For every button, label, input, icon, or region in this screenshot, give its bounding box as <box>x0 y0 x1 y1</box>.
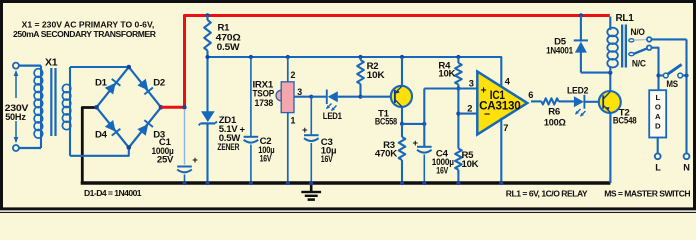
resistor R1 <box>204 16 211 58</box>
svg-text:16V: 16V <box>260 153 272 164</box>
svg-text:100Ω: 100Ω <box>544 117 566 128</box>
label pin 2 opamp <box>467 104 472 114</box>
diode D5 <box>574 16 588 73</box>
junction node base T1 <box>358 95 362 99</box>
svg-text:N/O: N/O <box>631 27 646 38</box>
wire C1 to rail <box>184 175 186 184</box>
diode D1 <box>105 79 121 95</box>
transistor T1 <box>391 86 412 107</box>
label LED2 <box>567 86 588 97</box>
junction node pin3/C3 <box>309 95 313 99</box>
relay pole bottom <box>647 45 652 50</box>
junction rail x250.9 <box>249 181 253 185</box>
svg-text:L: L <box>655 162 661 172</box>
ground symbol <box>301 185 321 201</box>
svg-text:+: + <box>192 155 198 166</box>
svg-text:RL1: RL1 <box>616 13 635 24</box>
label pin 2 <box>291 70 296 80</box>
IR receiver module IRX1 <box>276 82 294 113</box>
label D2 <box>153 78 165 89</box>
junction rail x501.3 <box>499 181 503 185</box>
junction bus IRX1 <box>286 55 290 59</box>
junction rail x207.5 <box>205 181 209 185</box>
wire collector node to C4 node <box>402 123 424 125</box>
wire relay top lead <box>609 17 611 31</box>
label pin 3 opamp <box>469 78 474 88</box>
wire relay bottom lead <box>609 66 611 73</box>
junction bus T1 <box>400 55 404 59</box>
svg-text:10K: 10K <box>462 159 479 170</box>
wire bridge right to C1 node (red) <box>161 106 185 109</box>
svg-text:+: + <box>240 124 246 135</box>
note MS <box>604 188 690 198</box>
wire mains top to primary <box>19 64 41 66</box>
230V 50Hz arrow <box>14 70 19 143</box>
note RL1 <box>506 188 588 198</box>
svg-text:1738: 1738 <box>255 98 274 109</box>
junction bridge right <box>159 105 164 110</box>
wire C2 to rail <box>250 145 252 184</box>
wire bus to C2 <box>250 57 252 136</box>
wire LED2 to T2 base <box>584 101 598 103</box>
svg-text:3: 3 <box>469 78 474 88</box>
label D3 <box>153 129 165 140</box>
svg-text:N: N <box>683 162 690 172</box>
svg-text:3: 3 <box>297 87 302 97</box>
diode D2 <box>137 79 153 95</box>
wire LED1 to R2 node <box>338 96 361 98</box>
resistor R5 <box>455 149 462 183</box>
wire T2 emitter to rail <box>609 113 611 184</box>
bridge diamond wiring <box>97 67 162 148</box>
label D4 <box>95 129 108 140</box>
svg-text:MS: MS <box>666 79 678 90</box>
svg-text:10K: 10K <box>367 70 385 81</box>
junction N wire MS <box>684 73 688 77</box>
wire secondary top to bridge <box>70 66 129 68</box>
junction red at R1 <box>205 13 209 17</box>
terminal L <box>655 153 661 159</box>
wire C3 to rail <box>310 143 312 183</box>
svg-text:L: L <box>655 93 660 102</box>
svg-text:1: 1 <box>291 116 296 126</box>
switch MS <box>663 64 682 78</box>
wire node to C3 <box>310 97 312 135</box>
wire positive rail (red) <box>185 16 610 108</box>
label LED1 <box>323 111 343 122</box>
svg-text:ZENER: ZENER <box>217 142 239 153</box>
label pin 1 <box>291 116 296 126</box>
transformer X1 primary winding <box>34 66 43 148</box>
label R2 <box>367 61 385 81</box>
wire T1 emitter to bus <box>401 57 403 86</box>
label C2 <box>258 136 274 164</box>
capacitor C3 <box>302 125 319 141</box>
svg-text:10K: 10K <box>438 68 455 79</box>
label T2 <box>613 108 637 127</box>
junction bus R4 <box>456 55 460 59</box>
label ZD1 <box>217 115 241 153</box>
diode D4 <box>105 120 121 136</box>
junction T1 collector node <box>400 122 404 126</box>
wire IRX1 pin2 <box>287 57 289 82</box>
label L <box>655 162 661 172</box>
wire pin6 output <box>531 100 542 102</box>
wire C3 node to LED1 <box>311 96 327 98</box>
wire stub to MS left <box>659 74 664 76</box>
svg-text:X1: X1 <box>45 57 58 69</box>
junction bridge bottom <box>127 145 132 150</box>
wire T2 collector <box>609 73 611 92</box>
junction rail x311.2 <box>309 181 313 185</box>
svg-text:R6: R6 <box>548 107 560 118</box>
capacitor C4 <box>413 138 432 153</box>
capacitor C2 <box>240 124 259 142</box>
zener ZD1 <box>199 111 217 125</box>
svg-text:7: 7 <box>503 123 508 133</box>
svg-text:D4: D4 <box>95 129 108 140</box>
label N/C <box>632 58 646 69</box>
op-amp IC1 <box>477 72 527 135</box>
relay RL1 core <box>621 25 627 68</box>
svg-text:1N4001: 1N4001 <box>546 45 574 56</box>
terminal N <box>684 153 690 159</box>
svg-text:A: A <box>655 112 661 121</box>
wire node to C1 (light blue) <box>184 109 186 165</box>
diode D3 <box>137 120 153 136</box>
svg-text:16V: 16V <box>321 154 333 165</box>
svg-text:BC548: BC548 <box>613 116 637 127</box>
wire T1 collector down <box>401 107 403 124</box>
junction red at D5 <box>579 13 583 17</box>
junction rail x287.8 <box>286 181 290 185</box>
resistor R2 <box>357 57 364 97</box>
wire pin3 horizontal <box>424 87 477 89</box>
label R3 <box>375 140 397 159</box>
transistor T2 <box>599 91 621 113</box>
svg-text:0.5W: 0.5W <box>217 42 241 53</box>
svg-text:D: D <box>655 122 661 131</box>
relay RL1 coil <box>607 28 618 68</box>
wire IRX1 pin3 <box>294 96 311 98</box>
note D1-D4 <box>84 188 142 198</box>
wire mains bottom to primary <box>19 147 41 149</box>
junction bus R1 <box>205 55 209 59</box>
svg-text:N/C: N/C <box>632 58 646 69</box>
label T1 <box>375 109 398 128</box>
label N/O <box>631 27 646 38</box>
LED LED1 <box>326 90 338 112</box>
LED LED2 <box>574 95 586 117</box>
wire load to L terminal <box>657 138 659 154</box>
junction rail x184.5 <box>182 181 186 185</box>
svg-text:BC558: BC558 <box>375 117 398 128</box>
ground rail <box>81 181 611 184</box>
wire IRX1 pin1 <box>287 113 289 183</box>
label IRX1 <box>253 79 275 109</box>
junction rail x458.4 <box>456 181 460 185</box>
relay contact wire thin <box>634 39 647 42</box>
wire stub MS right <box>683 74 687 76</box>
label MS <box>666 79 678 90</box>
label RL1 <box>616 13 635 24</box>
svg-text:D1: D1 <box>95 78 108 89</box>
resistor R6 <box>542 98 574 104</box>
svg-text:+: + <box>481 85 487 97</box>
wire ZD1 column <box>206 57 208 183</box>
junction red at C1 <box>182 105 186 109</box>
wire pole top to N wire <box>651 38 686 40</box>
svg-text:LED1: LED1 <box>323 111 343 122</box>
label pin 4 <box>505 77 511 87</box>
svg-text:+: + <box>413 138 419 149</box>
label C4 <box>432 148 454 176</box>
svg-text:RL1 = 6V, 1C/O RELAY: RL1 = 6V, 1C/O RELAY <box>506 188 588 198</box>
wire pin7 to rail <box>500 118 502 183</box>
wire secondary bottom to bridge <box>70 148 129 156</box>
relay contact N/C <box>629 53 634 56</box>
svg-text:2: 2 <box>467 104 472 114</box>
svg-text:470K: 470K <box>375 148 397 159</box>
label R6 <box>544 107 566 129</box>
relay contact N/O <box>629 39 634 42</box>
wire pin2 horizontal <box>458 113 477 115</box>
label R4 <box>438 61 455 80</box>
wire D5 to relay bottom <box>581 72 610 74</box>
junction rail x424.3 <box>422 181 426 185</box>
wire Vcc bus <box>208 57 502 88</box>
svg-text:D2: D2 <box>153 78 165 89</box>
label 230V 50Hz <box>5 103 29 123</box>
svg-text:50Hz: 50Hz <box>5 112 26 123</box>
junction pin2 node <box>456 112 460 116</box>
wire N vertical <box>685 39 687 153</box>
wire C4 riser to pin3 line <box>423 89 425 147</box>
label pin 7 <box>503 123 508 133</box>
transformer X1 core <box>50 68 56 136</box>
wire node to T1 base <box>361 96 392 98</box>
svg-text:CA3130: CA3130 <box>479 99 521 113</box>
label N <box>683 162 690 172</box>
label R5 <box>462 150 479 170</box>
svg-text:LED2: LED2 <box>567 86 588 97</box>
junction relay bottom node <box>608 71 612 75</box>
wire pole bottom to load wire <box>651 48 658 90</box>
resistor R4 <box>455 57 462 89</box>
terminal: mains top <box>13 63 19 69</box>
label R1 <box>216 22 241 53</box>
relay armature <box>634 48 647 53</box>
note: transformer spec text <box>13 20 157 39</box>
svg-text:O: O <box>655 103 661 112</box>
wire C4 to rail <box>423 155 425 184</box>
label C3 <box>321 137 336 165</box>
label X1 <box>45 57 58 69</box>
junction bus C2 <box>249 55 253 59</box>
svg-text:2: 2 <box>291 70 296 80</box>
transformer X1 secondary winding <box>62 67 70 156</box>
junction bridge top <box>127 65 132 70</box>
svg-text:6: 6 <box>528 90 533 100</box>
wire R4 node down to pin2 node <box>457 89 459 149</box>
junction bus R2 <box>358 55 362 59</box>
svg-text:25V: 25V <box>157 154 174 165</box>
svg-text:+: + <box>302 125 308 136</box>
junction bridge left <box>94 105 99 110</box>
wire bridge left to ground rail (black) <box>82 108 96 184</box>
resistor R3 <box>399 124 406 183</box>
svg-text:MS = MASTER SWITCH: MS = MASTER SWITCH <box>604 188 690 198</box>
label D1 <box>95 78 108 89</box>
svg-text:16V: 16V <box>436 166 448 177</box>
junction rail x402 <box>400 181 404 185</box>
junction load wire MS <box>656 73 660 77</box>
junction pin3 node <box>456 86 460 90</box>
relay pole top <box>647 37 652 42</box>
svg-text:D1-D4 = 1N4001: D1-D4 = 1N4001 <box>84 188 142 198</box>
label pin 6 <box>528 90 533 100</box>
svg-text:250mA SECONDARY TRANSFORMER: 250mA SECONDARY TRANSFORMER <box>13 29 157 39</box>
junction C4 node <box>422 122 426 126</box>
capacitor C1 <box>177 155 198 173</box>
label D5 <box>546 36 574 56</box>
load box <box>649 90 666 137</box>
label pin 3 <box>297 87 302 97</box>
label C1 <box>152 137 175 165</box>
terminal: mains bottom <box>13 145 19 151</box>
